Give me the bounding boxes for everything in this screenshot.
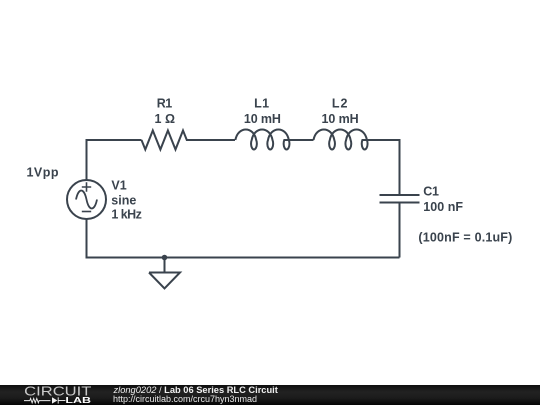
svg-text:LAB: LAB: [65, 396, 91, 405]
svg-text:L1: L1: [254, 97, 269, 111]
svg-text:1 Ω: 1 Ω: [155, 112, 176, 126]
svg-text:10 mH: 10 mH: [244, 112, 281, 126]
svg-text:100 nF: 100 nF: [423, 200, 463, 214]
svg-text:1Vpp: 1Vpp: [27, 166, 59, 180]
svg-text:10 mH: 10 mH: [322, 112, 359, 126]
svg-text:(100nF = 0.1uF): (100nF = 0.1uF): [418, 230, 512, 244]
svg-text:1 kHz: 1 kHz: [111, 207, 141, 221]
svg-text:V1: V1: [111, 178, 126, 192]
svg-text:sine: sine: [111, 194, 136, 208]
svg-text:C1: C1: [423, 184, 439, 198]
svg-text:R1: R1: [157, 97, 173, 111]
svg-text:L2: L2: [332, 97, 348, 111]
